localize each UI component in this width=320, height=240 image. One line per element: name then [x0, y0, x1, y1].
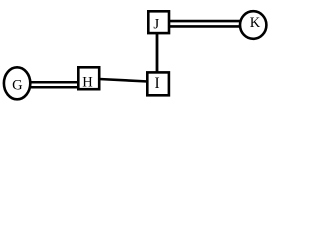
wire J-K double edge lower [169, 25, 240, 28]
wire H-I single edge [99, 79, 148, 82]
wire J-I vertical edge [156, 32, 159, 73]
wire J-K double edge upper [169, 20, 240, 23]
node J [148, 11, 169, 33]
node I [147, 72, 169, 95]
svg-text:K: K [250, 15, 261, 31]
node H [78, 67, 99, 90]
svg-text:I: I [155, 75, 160, 92]
svg-text:G: G [12, 77, 23, 93]
wire G-H double edge upper [29, 81, 79, 84]
svg-text:H: H [82, 75, 93, 91]
node K [240, 11, 266, 39]
svg-text:J: J [153, 17, 159, 33]
wire G-H double edge lower [29, 86, 79, 89]
node G [4, 67, 30, 99]
